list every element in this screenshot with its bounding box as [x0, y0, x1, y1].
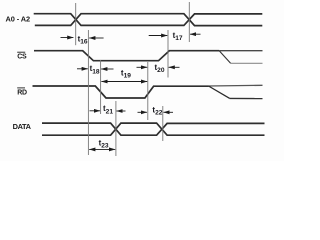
- dimension t19 double arrow: [101, 81, 147, 83]
- wire RD continued high (alternative state): [209, 84, 263, 87]
- svg-text:CS: CS: [17, 54, 27, 61]
- wire CS trace: [34, 51, 219, 61]
- dimension t18 left arrow: [77, 68, 88, 70]
- dimension t22 left arrow: [138, 111, 148, 113]
- svg-text:DATA: DATA: [13, 122, 32, 131]
- node reference line V7 (address change 2): [188, 2, 190, 42]
- dimension t17 right arrow: [190, 33, 201, 35]
- wire RD trace: [33, 86, 209, 98]
- svg-text:RD: RD: [17, 90, 27, 97]
- node reference line V1 (address change): [75, 3, 77, 45]
- dimension t20 left arrow: [137, 66, 148, 68]
- node reference line V2 (CS fall): [87, 30, 89, 155]
- node reference line V6 (CS rise): [167, 30, 169, 78]
- node reference line V3 (RD fall): [100, 60, 102, 114]
- bus DATA line top-start: [42, 123, 265, 135]
- dimension t21 right arrow: [117, 110, 126, 112]
- signal label RD with overline: [17, 87, 25, 89]
- dimension t20 right arrow: [169, 66, 180, 68]
- node reference line V5 (RD rise): [147, 62, 149, 120]
- wire RD fork low continued: [230, 97, 263, 99]
- dimension t22 right arrow: [164, 111, 174, 113]
- node reference line V4 (DATA valid): [115, 101, 117, 156]
- wire CS continued high (alternative state): [219, 50, 262, 52]
- bus DATA line bottom-start: [42, 123, 265, 135]
- bus A0-A2 line top-start: [34, 14, 263, 26]
- signal label CS with overline: [17, 51, 25, 53]
- svg-text:A0 - A2: A0 - A2: [6, 15, 31, 24]
- dimension t21 left arrow: [90, 110, 101, 112]
- node reference line V8 (DATA invalid): [162, 106, 164, 141]
- dimension t16 right arrow: [89, 37, 103, 39]
- dimension t16 left arrow: [61, 37, 74, 39]
- wire CS fork falling edge: [219, 51, 230, 64]
- dimension t23 double arrow: [89, 148, 115, 150]
- bus A0-A2 line bottom-start: [35, 14, 262, 26]
- wire RD fork falling edge: [209, 86, 230, 98]
- dimension t17 left arrow: [149, 35, 168, 37]
- wire CS fork low (alternative state): [231, 62, 263, 64]
- dimension t18 right arrow: [101, 68, 113, 70]
